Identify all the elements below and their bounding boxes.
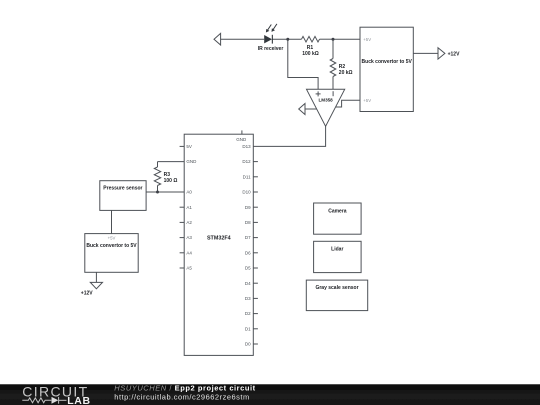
resistor R1 [302,36,320,42]
wire buck U2 to +12V terminal [413,52,438,54]
pin label D6 [245,250,251,255]
wire buck U4 to +12V down terminal [95,272,97,282]
pin GND top stub [241,130,243,134]
pin label D0 [245,342,251,347]
pin D8 stub [253,221,258,223]
svg-text:D0: D0 [245,342,251,347]
svg-text:20 kΩ: 20 kΩ [339,70,353,76]
pin label +5V U4 [108,236,116,241]
svg-text:A5: A5 [186,266,192,271]
buck converter U4 box [85,234,138,273]
svg-text:LM358: LM358 [318,98,333,103]
pin label GND top [236,137,247,142]
pin A3 stub [180,237,185,239]
wire op-amp V- pin to terminal [305,108,317,110]
svg-text:D13: D13 [242,144,251,149]
node B junction dot [332,38,335,41]
svg-text:D1: D1 [245,326,251,331]
pin label A2 [186,220,192,225]
node A0 junction dot [156,191,159,194]
svg-text:D9: D9 [245,205,251,210]
svg-text:D12: D12 [242,159,251,164]
svg-text:IR receiver: IR receiver [258,46,284,52]
terminal +12V right [438,48,445,59]
pin D5 stub [253,267,258,269]
svg-text:Buck convertor to 5V: Buck convertor to 5V [362,59,413,65]
pin label A0 [186,190,192,195]
pin label D9 [245,205,251,210]
svg-text:Camera: Camera [328,209,347,215]
lidar box [314,241,362,272]
label Gray scale sensor [315,285,358,291]
terminal +12V down [90,282,102,288]
pin A4 stub [180,252,185,254]
pin D10 stub [253,191,258,193]
svg-text:STM32F4: STM32F4 [207,235,231,241]
CircuitLab logo text LAB [67,395,90,405]
pin label D11 [243,174,251,179]
CircuitLab logo squiggle wire with diode [22,397,66,404]
pin label D13 [242,144,251,149]
pin label D7 [245,235,251,240]
pin label D4 [245,281,251,286]
label +12V right [448,52,460,58]
svg-text:+12V: +12V [448,52,460,58]
pin D6 stub [253,252,258,254]
STM32F4 U3 box [184,134,253,355]
pin D1 stub [253,328,258,330]
svg-text:+12V: +12V [81,290,93,296]
svg-text:Pressure sensor: Pressure sensor [103,186,142,192]
pin label 5V [186,144,192,149]
svg-text:D2: D2 [245,311,251,316]
pin label A5 [186,266,192,271]
label 100 kOhm [302,51,319,57]
pin A1 stub [180,206,185,208]
pin label D5 [245,266,251,271]
node A junction dot [286,38,289,41]
pin label +5V U2 top [363,37,371,42]
terminal op-amp left [299,104,305,115]
pin label GND left [186,159,197,164]
pin label A1 [186,205,192,210]
pin D3 stub [253,297,258,299]
wire pressure sensor to buck converter U4 [111,210,113,233]
pin D9 stub [253,206,258,208]
svg-text:100 Ω: 100 Ω [164,178,178,184]
pin label +5V U2 bottom [363,98,371,103]
label STM32F4 [207,235,231,241]
wire op-amp output to STM32 D13 [253,126,325,146]
pin label D2 [245,311,251,316]
label 20 kOhm [339,70,353,76]
wire node B to buck converter U2 [333,38,360,40]
pin D2 stub [253,313,258,315]
svg-text:D6: D6 [245,250,251,255]
pin D7 stub [253,237,258,239]
pin label D3 [245,296,251,301]
svg-text:http://circuitlab.com/c29662rz: http://circuitlab.com/c29662rze6stm [114,392,249,401]
svg-text:GND: GND [186,159,197,164]
terminal input left [214,33,221,45]
svg-text:A3: A3 [186,235,192,240]
svg-text:D11: D11 [243,174,251,179]
label +12V down [81,290,93,296]
svg-text:+5V: +5V [108,236,116,241]
svg-text:D10: D10 [242,190,251,195]
camera box [314,203,362,234]
buck converter U2 box [360,27,413,111]
label R2 [339,64,346,70]
pin A5 stub [180,267,185,269]
resistor R2 [330,39,336,89]
label Buck convertor to 5V (U2) [362,59,413,65]
svg-text:+5V: +5V [363,37,371,42]
svg-text:5V: 5V [186,144,192,149]
pin label A3 [186,235,192,240]
label Lidar [331,247,343,253]
pin label D1 [245,326,251,331]
pin D0 stub [253,343,258,345]
svg-text:D3: D3 [245,296,251,301]
pin A2 stub [180,221,185,223]
wire input to diode [221,38,265,40]
pin label A4 [186,250,192,255]
op-amp U1 LM358 [307,89,345,126]
svg-text:Lidar: Lidar [331,247,343,253]
pin labels (gray) [186,137,251,347]
svg-text:D8: D8 [245,220,251,225]
labels: component names/values (black bold) [81,45,460,296]
label R1 [307,45,314,51]
label Pressure sensor [103,186,142,192]
svg-text:D5: D5 [245,266,251,271]
wire STM32 GND to R3 [158,161,185,163]
svg-text:100 kΩ: 100 kΩ [302,51,319,57]
svg-text:A2: A2 [186,220,192,225]
pin label D8 [245,220,251,225]
footer title line [114,383,255,392]
svg-text:A0: A0 [186,190,192,195]
wire diode to R1 [272,38,301,40]
pin D11 stub [253,176,258,178]
label Buck convertor to 5V (U4) [86,243,137,249]
pin D4 stub [253,282,258,284]
svg-text:R3: R3 [164,172,171,178]
svg-text:LAB: LAB [67,395,90,405]
pin 5V stub [180,145,185,147]
label IR receiver [258,46,284,52]
CircuitLab logo text CIRCUIT [22,384,88,400]
wire node A to op-amp + input [288,39,318,89]
wire R1 to node B [320,38,334,40]
label LM358 [318,98,333,103]
wire op-amp output pin to buck converter U2 +5V [336,100,360,107]
pressure sensor M1 box [100,181,146,211]
svg-text:GND: GND [236,137,247,142]
svg-text:D7: D7 [245,235,251,240]
svg-text:A4: A4 [186,250,192,255]
pin D12 stub [253,161,258,163]
svg-text:A1: A1 [186,205,192,210]
svg-text:HSUYUCHEN / Epp2 project circu: HSUYUCHEN / Epp2 project circuit [114,383,255,392]
footer url line [114,392,249,401]
diode D1 IR receiver symbol [264,24,277,44]
svg-text:Gray scale sensor: Gray scale sensor [315,285,358,291]
svg-text:Buck convertor to 5V: Buck convertor to 5V [86,243,137,249]
gray scale sensor box [306,280,367,311]
label Camera [328,209,347,215]
svg-text:+5V: +5V [363,98,371,103]
resistor R3 [154,162,160,192]
wire A0 node to STM32 A0 [146,191,184,193]
label 100 Ohm [164,178,178,184]
footer black bar [0,384,540,405]
label R3 [164,172,171,178]
pin label D10 [242,190,251,195]
svg-text:D4: D4 [245,281,251,286]
pin label D12 [242,159,251,164]
